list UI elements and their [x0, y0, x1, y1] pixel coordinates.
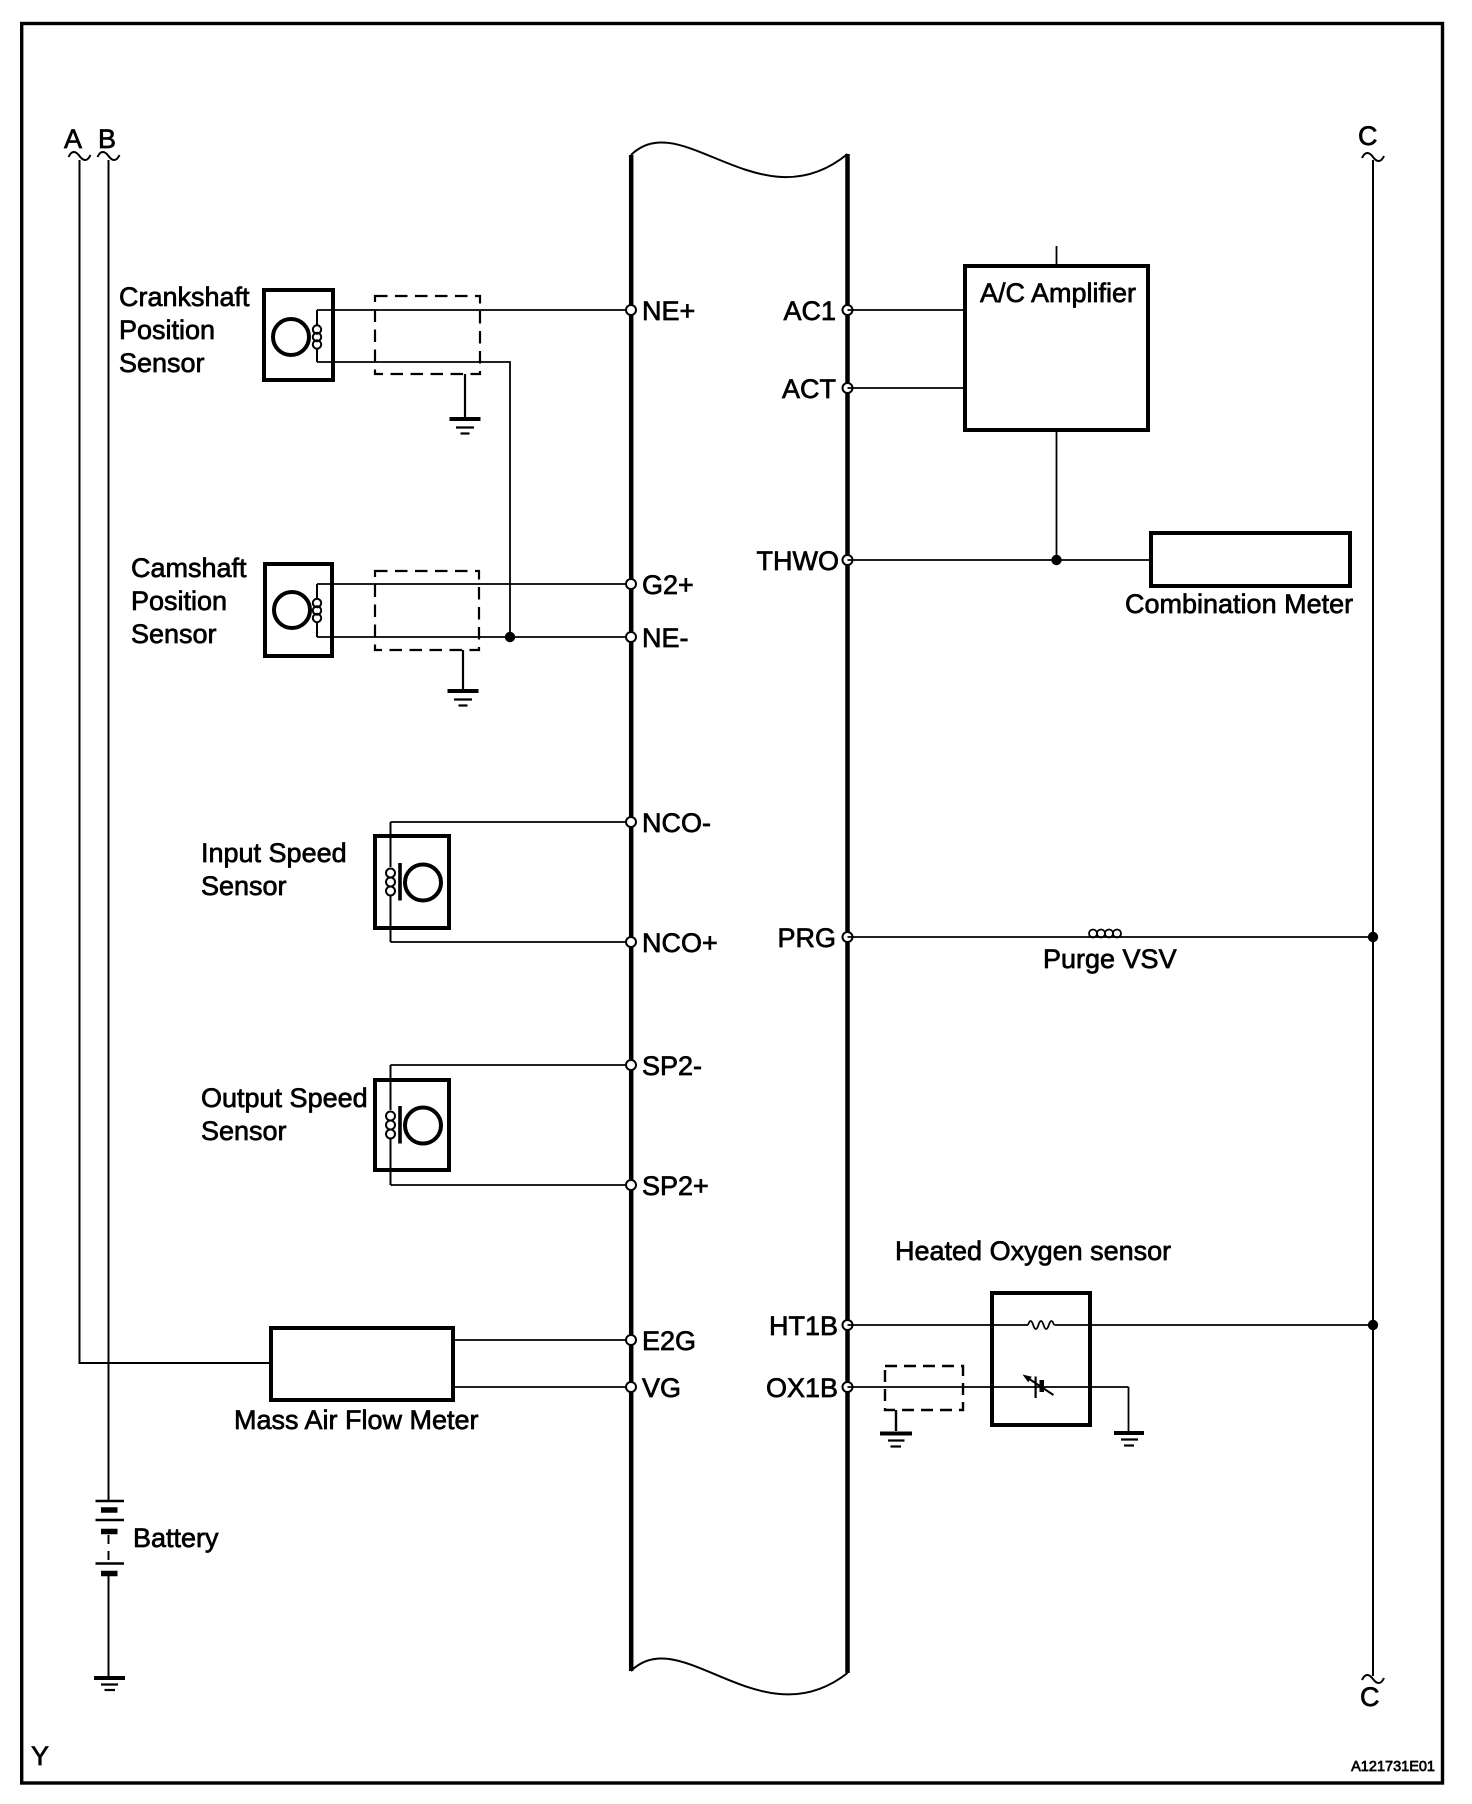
ECU terminal OX1B — [843, 1382, 853, 1392]
junction THWO net — [1051, 555, 1061, 565]
Input Speed Sensor body — [375, 836, 449, 928]
svg-text:VG: VG — [642, 1373, 681, 1403]
ECU terminal SP2- — [626, 1060, 636, 1070]
ECU connector right edge — [845, 154, 850, 1673]
svg-text:OX1B: OX1B — [766, 1373, 838, 1403]
wire C bus — [1372, 160, 1374, 1676]
battery plate long 3 — [96, 1562, 125, 1564]
ECU terminal THWO — [843, 555, 853, 565]
ECU bottom break wave — [631, 1658, 848, 1694]
battery plate short 2 — [101, 1529, 118, 1535]
ground (crankshaft shield) — [450, 419, 481, 434]
junction HT1B at C bus — [1368, 1320, 1378, 1330]
ground (battery) — [94, 1678, 125, 1690]
purge VSV solenoid coil — [1089, 930, 1121, 938]
svg-text:G2+: G2+ — [642, 570, 694, 600]
svg-text:Camshaft: Camshaft — [131, 553, 247, 583]
input speed sensor coil — [386, 822, 395, 942]
svg-text:Y: Y — [31, 1741, 49, 1771]
output speed sensor core bar — [398, 1106, 402, 1144]
oxygen sensor cell plate thick — [1040, 1380, 1045, 1392]
node C break mark (bottom) — [1362, 1675, 1384, 1683]
wire ACT to A/C amplifier — [848, 387, 966, 389]
ECU terminal NCO- — [626, 817, 636, 827]
svg-text:C: C — [1358, 121, 1378, 151]
svg-text:SP2-: SP2- — [642, 1051, 702, 1081]
A/C amplifier top stub wire — [1056, 246, 1058, 266]
wire A bus — [80, 160, 272, 1363]
wire B bus — [108, 160, 110, 1500]
svg-text:A: A — [64, 124, 82, 154]
ECU terminal ACT — [843, 383, 853, 393]
svg-text:ACT: ACT — [782, 374, 836, 404]
Camshaft Position Sensor body — [265, 564, 332, 656]
wire THWO to combination meter — [848, 559, 1152, 561]
junction PRG at C bus — [1368, 932, 1378, 942]
ECU terminal E2G — [626, 1335, 636, 1345]
crankshaft shield ground stub — [464, 374, 466, 417]
wire MAF to E2G — [453, 1339, 631, 1341]
input speed sensor rotor circle — [405, 865, 441, 901]
svg-text:E2G: E2G — [642, 1326, 696, 1356]
oxygen sensor variable arrow — [1027, 1378, 1054, 1396]
input speed sensor core bar — [398, 863, 402, 901]
camshaft shield ground stub — [462, 650, 464, 689]
battery plate short 1 — [101, 1507, 118, 1513]
wire oxygen sensor to ground — [1128, 1387, 1130, 1431]
output speed sensor coil — [386, 1065, 395, 1185]
wire input speed sensor to NCO+ — [391, 941, 632, 943]
wire HT1B to C bus — [848, 1324, 1029, 1326]
svg-text:C: C — [1360, 1682, 1380, 1712]
OX1B shield ground stub — [895, 1410, 897, 1431]
svg-text:NE+: NE+ — [642, 296, 695, 326]
Output Speed Sensor body — [375, 1080, 449, 1170]
wire camshaft to G2+ — [317, 583, 631, 585]
node C break mark (top) — [1362, 153, 1384, 161]
ECU terminal AC1 — [843, 305, 853, 315]
crankshaft sensor reluctor circle — [273, 319, 309, 355]
junction NE- net — [505, 632, 515, 642]
camshaft sensor pickup coil — [313, 584, 321, 637]
battery — [96, 1501, 125, 1574]
svg-text:Mass Air Flow Meter: Mass Air Flow Meter — [234, 1405, 479, 1435]
svg-text:A121731E01: A121731E01 — [1351, 1759, 1435, 1775]
Crankshaft Position Sensor body — [264, 290, 333, 380]
battery plate long 1 — [96, 1500, 125, 1502]
ECU terminal PRG — [843, 932, 853, 942]
Mass Air Flow Meter body — [271, 1328, 453, 1400]
wire battery to ground — [108, 1576, 110, 1677]
ECU terminal NE- — [626, 632, 636, 642]
ECU terminal NCO+ — [626, 937, 636, 947]
wire AC1 to A/C amplifier — [848, 309, 966, 311]
svg-text:Sensor: Sensor — [119, 348, 205, 378]
wire camshaft to NE- — [317, 636, 631, 638]
svg-text:Output Speed: Output Speed — [201, 1083, 368, 1113]
svg-text:Purge VSV: Purge VSV — [1043, 944, 1177, 974]
node B break mark — [98, 152, 120, 160]
wire A/C amplifier down to THWO net — [1056, 430, 1058, 560]
wire OX1B — [848, 1386, 1129, 1388]
svg-text:Sensor: Sensor — [131, 619, 217, 649]
svg-text:PRG: PRG — [777, 923, 836, 953]
wire input speed sensor to NCO- — [391, 821, 632, 823]
ECU terminal NE+ — [626, 305, 636, 315]
svg-text:Position: Position — [131, 586, 227, 616]
svg-text:Input Speed: Input Speed — [201, 838, 347, 868]
ground (oxygen sensor) — [1114, 1433, 1144, 1446]
svg-text:Battery: Battery — [133, 1523, 219, 1553]
wire output speed sensor to SP2+ — [391, 1184, 632, 1186]
ECU terminal HT1B — [843, 1320, 853, 1330]
ECU terminal VG — [626, 1382, 636, 1392]
battery plate short 3 — [101, 1571, 118, 1577]
svg-text:Heated Oxygen sensor: Heated Oxygen sensor — [895, 1236, 1171, 1266]
svg-text:Combination Meter: Combination Meter — [1125, 589, 1353, 619]
svg-text:SP2+: SP2+ — [642, 1171, 709, 1201]
ECU top break wave — [631, 142, 848, 177]
svg-text:NCO+: NCO+ — [642, 928, 718, 958]
svg-text:NE-: NE- — [642, 623, 689, 653]
wire crankshaft to NE+ — [317, 309, 631, 311]
wire output speed sensor to SP2- — [391, 1064, 632, 1066]
svg-text:NCO-: NCO- — [642, 808, 711, 838]
battery plate long 2 — [96, 1519, 125, 1521]
node A break mark — [69, 152, 91, 160]
camshaft sensor reluctor circle — [274, 592, 310, 628]
svg-text:AC1: AC1 — [783, 296, 836, 326]
Combination Meter body — [1151, 533, 1350, 586]
svg-text:Crankshaft: Crankshaft — [119, 282, 250, 312]
ground (OX1B shield) — [880, 1434, 912, 1447]
wire crankshaft low side down to NE- net — [317, 362, 510, 637]
ECU connector left edge — [629, 155, 634, 1671]
ground (camshaft shield) — [448, 691, 479, 706]
wire PRG to C bus — [848, 936, 1374, 938]
oxygen sensor cell plate thin — [1035, 1377, 1037, 1399]
output speed sensor rotor circle — [405, 1108, 441, 1144]
ECU terminal SP2+ — [626, 1180, 636, 1190]
svg-text:Position: Position — [119, 315, 215, 345]
svg-text:Sensor: Sensor — [201, 1116, 287, 1146]
camshaft shield (dashed) — [375, 571, 479, 650]
svg-text:Sensor: Sensor — [201, 871, 287, 901]
OX1B shield (dashed) — [885, 1366, 963, 1410]
battery cells dashed link — [108, 1535, 110, 1561]
svg-text:B: B — [98, 124, 116, 154]
svg-text:HT1B: HT1B — [769, 1311, 838, 1341]
ECU terminal G2+ — [626, 579, 636, 589]
Heated Oxygen sensor body — [992, 1293, 1090, 1425]
A/C Amplifier body — [965, 266, 1148, 430]
wire MAF to VG — [453, 1386, 631, 1388]
svg-text:THWO: THWO — [757, 546, 839, 576]
heater resistor — [1028, 1321, 1054, 1329]
svg-text:A/C Amplifier: A/C Amplifier — [980, 278, 1136, 308]
crankshaft shield (dashed) — [375, 296, 480, 374]
crankshaft sensor pickup coil — [313, 310, 321, 362]
